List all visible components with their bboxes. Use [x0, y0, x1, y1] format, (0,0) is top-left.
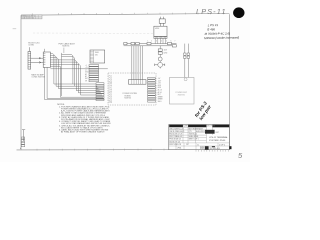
long distribution wire — [50, 68, 107, 70]
riser pair wire — [61, 53, 63, 96]
label: power distribution board — [123, 93, 138, 99]
svg-text:RET: RET — [158, 94, 161, 96]
label: POWER CABLE ASSY 7008735 — [58, 43, 75, 48]
svg-text:LPS11: LPS11 — [177, 148, 182, 150]
title block dark stamp — [205, 130, 215, 134]
svg-text:FIRST USED ON: FIRST USED ON — [169, 144, 181, 146]
pin label column inside dashed board — [109, 76, 112, 105]
regulator board A1 — [90, 50, 105, 63]
fuse pair wires to PS1 — [185, 44, 189, 78]
svg-text:DIST: DIST — [216, 132, 220, 134]
svg-text:+5V: +5V — [158, 78, 161, 80]
sheet number cell — [205, 146, 209, 149]
label: MOLEX 1261 CONN — [28, 43, 39, 47]
svg-text:+5: +5 — [85, 65, 87, 67]
svg-text:P1-8: P1-8 — [109, 89, 112, 91]
checkbox squares — [200, 147, 201, 148]
svg-text:-15: -15 — [85, 69, 87, 71]
svg-text:CHK R.JONES 4-6-73: CHK R.JONES 4-6-73 — [169, 131, 184, 133]
filter FL2 — [158, 52, 162, 54]
label: MATE W/ AMP CONN — [31, 74, 44, 79]
svg-text:P1-4: P1-4 — [109, 81, 112, 83]
connector P1 (power cable) — [43, 49, 50, 68]
svg-text:7008731: 7008731 — [178, 95, 185, 97]
zone marker stack lower-left — [20, 130, 25, 150]
svg-text:CONN: CONN — [28, 45, 34, 47]
sheet border frame — [17, 14, 230, 150]
svg-text:H744: H744 — [155, 28, 159, 30]
terminal lug E1 on bus — [124, 42, 127, 44]
power distribution board (dashed outline) — [108, 73, 156, 105]
svg-text:RET: RET — [85, 78, 88, 80]
svg-text:SYSTEM LPS40: SYSTEM LPS40 — [209, 140, 226, 142]
svg-text:P2-3: P2-3 — [109, 97, 112, 99]
code cell dash — [212, 146, 215, 147]
fuse F5 — [184, 56, 186, 58]
svg-text:P1-3: P1-3 — [109, 79, 112, 81]
svg-text:7008730: 7008730 — [124, 98, 131, 100]
svg-text:P1-6: P1-6 — [109, 85, 112, 87]
svg-text:LPS11-0-5: LPS11-0-5 — [211, 148, 221, 150]
svg-text:DEC FORM: DEC FORM — [207, 126, 216, 128]
wire bus to fan chain — [159, 46, 161, 49]
svg-text:-15V: -15V — [158, 83, 161, 85]
leader wire from cable label — [63, 48, 65, 53]
pin number labels below U1 — [148, 40, 176, 42]
terminal strip TB1 — [89, 65, 99, 82]
svg-text:115V: 115V — [164, 50, 167, 52]
svg-text:P1-1: P1-1 — [109, 76, 112, 78]
connector J2 — [129, 80, 147, 85]
punch hole — [233, 7, 244, 18]
terminal column TB2 — [148, 77, 156, 102]
svg-text:60HZ: 60HZ — [164, 52, 168, 54]
svg-text:AT FINAL ASSY OF POWER CHASSIS: AT FINAL ASSY OF POWER CHASSIS 7008729 — [61, 131, 105, 134]
TB2 net labels — [158, 78, 163, 103]
revision table — [21, 13, 42, 19]
fold mark left margin — [13, 28, 17, 30]
notes block — [57, 104, 111, 134]
fuse F1 on bus — [131, 42, 135, 44]
connector J1 (MOLEX 1261) — [28, 47, 31, 69]
svg-text:LPS-11 TERMINAL: LPS-11 TERMINAL — [209, 136, 229, 139]
terminal strip TB1 lower bank — [96, 83, 104, 101]
svg-text:+15V: +15V — [158, 80, 162, 82]
handwritten annotation list — [204, 23, 239, 40]
fuse F4 — [187, 53, 189, 55]
fine ruler ticks under title block — [196, 150, 228, 152]
breaker CB1 on bus — [168, 42, 172, 44]
switch S1 on bus — [147, 42, 151, 44]
cable bundle to J2 — [132, 46, 143, 80]
svg-text:LPS-11: LPS-11 — [196, 7, 227, 16]
pin stub wires below U1 — [155, 38, 165, 43]
svg-text:QTY: QTY — [189, 131, 192, 133]
svg-text:P2-1: P2-1 — [109, 93, 112, 95]
svg-text:P1-5: P1-5 — [109, 83, 112, 85]
svg-text:P1-2: P1-2 — [109, 78, 112, 80]
svg-text:STD M.OTT 4-9: STD M.OTT 4-9 — [169, 141, 180, 143]
fuse F3 — [184, 53, 186, 55]
AC bus wires — [124, 44, 177, 46]
transformer T1 — [159, 17, 165, 24]
branch wires mid staircase — [62, 54, 75, 86]
wire B1 to B2 — [159, 61, 161, 62]
svg-text:P1-7: P1-7 — [109, 87, 112, 89]
svg-text:P2-6: P2-6 — [109, 102, 112, 104]
svg-text:P2-5: P2-5 — [109, 100, 112, 102]
svg-text:SH: SH — [85, 80, 87, 82]
regulator U1 — [154, 23, 167, 38]
svg-text:+15: +15 — [85, 67, 88, 69]
corner stamp square — [229, 146, 231, 149]
wire harness outer nest — [45, 66, 105, 99]
svg-text:ENG D.LEE 4-7-73: ENG D.LEE 4-7-73 — [169, 134, 182, 136]
svg-text:M15010 (smoke increased): M15010 (smoke increased) — [204, 35, 239, 40]
fan motor B1 — [158, 57, 162, 61]
wire J1 to P1 upper — [31, 57, 44, 59]
title block text — [169, 125, 219, 150]
fan motor B2 with taps — [155, 62, 165, 68]
svg-text:P1-9: P1-9 — [109, 91, 112, 93]
power supply PS1 — [170, 78, 195, 105]
fuse F6 — [187, 56, 189, 58]
svg-text:OPT: OPT — [186, 144, 189, 146]
title block — [169, 125, 232, 152]
svg-text:1 OF 1: 1 OF 1 — [219, 145, 226, 147]
breaker CB2 on bus — [172, 45, 176, 47]
fuse F2 on bus — [136, 42, 140, 44]
wire J1 to P1 lower — [31, 62, 44, 64]
svg-text:P2-2: P2-2 — [109, 95, 112, 97]
handwritten diagonal scribble — [194, 100, 213, 121]
wire harness fan-out from P1 — [50, 53, 102, 95]
filter FL1 — [158, 49, 162, 51]
svg-text:726: 726 — [95, 54, 98, 56]
construction fold line — [33, 32, 154, 34]
svg-text:P2-4: P2-4 — [109, 98, 112, 100]
svg-text:CONN 7008733: CONN 7008733 — [31, 77, 44, 79]
junction node at PS1 — [184, 78, 187, 81]
svg-text:1 2 3 4 5 6 7 8 9 0: 1 2 3 4 5 6 7 8 9 0 — [22, 18, 34, 20]
svg-text:7008735: 7008735 — [62, 46, 69, 48]
svg-text:DRN J.SMITH 4-6-73: DRN J.SMITH 4-6-73 — [169, 128, 183, 130]
svg-text:SHEET 1 OF 1: SHEET 1 OF 1 — [189, 139, 199, 141]
svg-text:7008735-0-0: 7008735-0-0 — [189, 134, 198, 136]
